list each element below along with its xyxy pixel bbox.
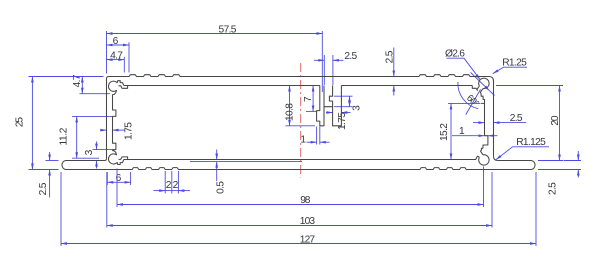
svg-text:11.2: 11.2 <box>58 127 69 145</box>
svg-text:127: 127 <box>300 234 316 245</box>
screw boss bottom-right slot lower lip <box>478 156 479 157</box>
svg-text:7: 7 <box>303 96 314 102</box>
svg-text:R1.25: R1.25 <box>502 58 527 69</box>
svg-text:R1.125: R1.125 <box>516 137 546 148</box>
svg-text:2.5: 2.5 <box>38 182 49 195</box>
dim 2.5 right wall thickness <box>473 113 526 124</box>
dim 1.75 left wall thickness <box>100 122 134 140</box>
screw boss bottom-left fang <box>119 157 128 160</box>
dim 6 top left <box>107 36 130 73</box>
dim 2.5 top wall thickness <box>384 48 395 96</box>
svg-text:2.5: 2.5 <box>510 113 523 124</box>
svg-text:6: 6 <box>113 36 119 47</box>
svg-text:60°: 60° <box>464 93 481 110</box>
screw boss bottom-right circle <box>479 155 489 165</box>
profile: top wall inner surface right segment <box>341 85 472 87</box>
dim 3 left <box>84 142 112 169</box>
svg-text:0.5: 0.5 <box>215 181 226 194</box>
svg-text:Ø2.6: Ø2.6 <box>445 49 465 60</box>
dim 10.8 centre rib length <box>284 86 315 126</box>
svg-text:1: 1 <box>459 126 465 137</box>
dim 57.5 overall top <box>107 25 323 93</box>
dim 25 overall height <box>14 77 103 170</box>
dim 1 right wall notch <box>452 126 498 137</box>
dim 2.5 centre slot <box>314 51 358 85</box>
dim 127 <box>61 172 536 246</box>
dim 98 <box>117 167 484 208</box>
screw boss top-right slot lower lip <box>477 86 480 90</box>
leader R1.25 <box>493 58 527 74</box>
dim 6 bottom left <box>107 172 130 185</box>
dim 0.5 groove depth <box>190 150 302 194</box>
dim 1 centre hook <box>300 127 329 146</box>
dim 7 centre rib <box>303 86 316 112</box>
profile: right wall inner surface with notch <box>483 103 488 148</box>
screw boss bottom-left <box>108 151 123 165</box>
svg-text:103: 103 <box>300 216 316 227</box>
screw boss top-right fang <box>472 86 477 91</box>
svg-text:2: 2 <box>166 180 172 191</box>
screw boss top-left <box>108 81 123 95</box>
dim 2 2 bottom grooves <box>154 171 191 194</box>
svg-text:3: 3 <box>84 149 95 155</box>
dim 15.2 right <box>439 103 480 159</box>
profile: top wall inner surface left segment <box>124 85 320 87</box>
profile: outer wall and top surface <box>107 75 494 159</box>
dim 3 centre tab <box>334 96 362 111</box>
svg-text:2.5: 2.5 <box>547 182 558 195</box>
screw boss top-right slot upper lip and ledge <box>480 89 484 104</box>
centre rib B with tab <box>324 86 333 107</box>
dim 20 inner height <box>496 86 563 161</box>
profile: left wall inner surface with ribs <box>113 95 116 151</box>
dim 60 degrees <box>458 73 495 115</box>
leader diameter 2.6 <box>445 49 480 80</box>
screw boss top-right circle <box>479 78 489 88</box>
profile: left wall-flange fillet <box>105 159 107 161</box>
svg-text:1.75: 1.75 <box>123 122 134 140</box>
svg-text:20: 20 <box>550 115 561 126</box>
svg-text:25: 25 <box>14 117 25 128</box>
svg-text:1.75: 1.75 <box>337 112 348 130</box>
dim 2.5 flange thickness right <box>538 151 581 195</box>
svg-text:2: 2 <box>173 180 179 191</box>
svg-text:98: 98 <box>300 195 311 206</box>
profile: bottom flange <box>62 161 535 170</box>
svg-text:2.5: 2.5 <box>384 50 395 63</box>
dim 2.5 flange thickness left <box>38 152 59 198</box>
centreline <box>300 63 302 178</box>
screw boss top-left fang <box>119 86 128 89</box>
screw boss bottom-right slot upper lip <box>481 148 484 155</box>
leader R1.125 <box>496 137 549 160</box>
centre rib A with hook foot <box>317 86 324 126</box>
svg-text:15.2: 15.2 <box>439 123 450 141</box>
dim 1.75 centre rib thickness <box>326 112 351 130</box>
dim 11.2 left <box>58 116 112 158</box>
dim 4.7 left side vertical <box>72 74 110 93</box>
profile: right wall-flange fillet R1.125 <box>494 156 498 160</box>
svg-text:1: 1 <box>300 135 306 146</box>
dim 103 <box>107 172 492 228</box>
svg-text:57.5: 57.5 <box>219 25 237 36</box>
svg-text:10.8: 10.8 <box>284 103 295 121</box>
svg-text:3: 3 <box>351 105 362 111</box>
dim 4.7 top left <box>107 50 125 72</box>
profile: cavity floor <box>124 156 478 159</box>
svg-text:2.5: 2.5 <box>344 51 357 62</box>
svg-text:4.7: 4.7 <box>110 50 123 61</box>
centre rib B body <box>333 86 342 126</box>
